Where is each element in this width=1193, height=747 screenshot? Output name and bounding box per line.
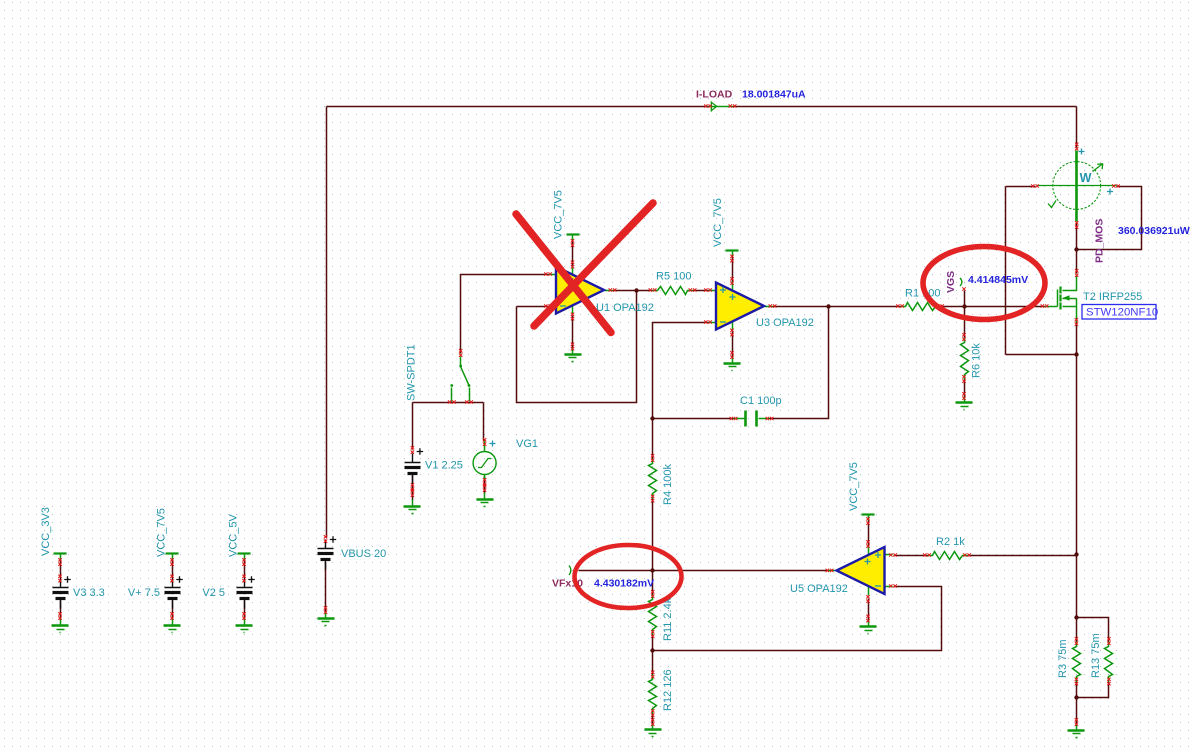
wire U1 feedback box bbox=[517, 291, 637, 403]
ground V2 bbox=[244, 620, 246, 626]
svg-text:VCC_7V5: VCC_7V5 bbox=[848, 462, 860, 511]
wire sense-left horizontal bbox=[1006, 186, 1036, 188]
VCC_7V5 jumper U3 bbox=[726, 249, 739, 251]
wire R13 top branch bbox=[1077, 618, 1109, 642]
pin connection marks bbox=[58, 104, 1120, 726]
ground V1 bbox=[412, 500, 414, 507]
wire sense-right bbox=[1077, 187, 1142, 250]
wire MOSFET source down bbox=[1076, 323, 1078, 355]
wire R4 top bbox=[652, 419, 654, 459]
wire U5 bottom to ground bbox=[868, 599, 870, 621]
wire U5 feedback bbox=[653, 587, 942, 651]
wire top rail right segment bbox=[733, 106, 1077, 108]
wire U5 plus input to R2 bbox=[894, 555, 928, 557]
wire main right rail bbox=[1076, 355, 1078, 642]
node R2 rail junction bbox=[1074, 552, 1078, 556]
VCC_5V jumper bbox=[238, 552, 251, 554]
wire V2 battery to ground bbox=[244, 601, 246, 620]
wire U3 supply stub bbox=[732, 257, 734, 283]
wire C1 right bbox=[770, 307, 829, 419]
wire VBUS bottom to ground bbox=[325, 563, 327, 613]
annotation box STW120NF10 bbox=[1082, 305, 1156, 320]
wire R12 to ground bbox=[652, 714, 654, 725]
wire feedback node to R12 bbox=[652, 651, 654, 675]
wire R11 to feedback node bbox=[652, 635, 654, 651]
wire R1 to MOSFET gate bbox=[941, 306, 1045, 308]
svg-text:VGS: VGS bbox=[945, 271, 957, 293]
wire V2 jumper to battery bbox=[244, 560, 246, 579]
svg-text:VCC_7V5: VCC_7V5 bbox=[712, 198, 724, 247]
svg-text:VCC_7V5: VCC_7V5 bbox=[553, 190, 565, 239]
wire VGS probe stub bbox=[964, 291, 966, 307]
battery V1 2.25 bbox=[412, 454, 414, 463]
svg-text:SW-SPDT1: SW-SPDT1 bbox=[406, 344, 418, 401]
wire U5 supply stub bbox=[868, 521, 870, 547]
wire R6 to ground bbox=[964, 380, 966, 398]
svg-text:T2 IRFP255: T2 IRFP255 bbox=[1083, 291, 1142, 303]
svg-text:VBUS 20: VBUS 20 bbox=[341, 548, 386, 560]
wire U3 minus branch bbox=[653, 323, 709, 419]
ground R12 bbox=[652, 724, 654, 730]
wire top rail left segment bbox=[327, 106, 709, 108]
node source junction bbox=[1074, 352, 1078, 356]
svg-text:R2 1k: R2 1k bbox=[936, 536, 965, 548]
wire switch common bottom bbox=[413, 402, 484, 404]
svg-text:R3 75m: R3 75m bbox=[1057, 639, 1069, 678]
svg-text:VCC_7V5: VCC_7V5 bbox=[156, 508, 168, 557]
wire right rail into wattmeter bbox=[1076, 107, 1078, 148]
resistor R6 10k bbox=[961, 338, 969, 380]
resistor R12 126 bbox=[649, 675, 657, 714]
ground U3 bbox=[732, 357, 734, 364]
wire sense-left vertical bbox=[1005, 187, 1007, 355]
resistor R3 75m bbox=[1073, 642, 1081, 682]
wire U1 supply stub bbox=[572, 241, 574, 266]
wire VG1 top bbox=[483, 403, 485, 441]
wire R3 bottom to ground bbox=[1076, 682, 1078, 725]
wire wattmeter bottom to drain node bbox=[1076, 224, 1078, 274]
resistor R1 100 bbox=[901, 303, 941, 311]
wire U1 output to R5 bbox=[613, 290, 653, 292]
node C1/R4 junction bbox=[650, 416, 654, 420]
svg-text:W: W bbox=[1080, 171, 1092, 185]
node VFx10 junction bbox=[650, 568, 654, 572]
wire U3 bottom to ground bbox=[732, 332, 734, 358]
current probe I-LOAD bbox=[709, 106, 733, 108]
op-amp U5 OPA192 bbox=[885, 554, 893, 556]
resistor R4 100k bbox=[649, 459, 657, 499]
battery V2 5 bbox=[244, 579, 246, 588]
wire VFx10 node to R11 bbox=[652, 571, 654, 595]
node R11/R12 junction bbox=[650, 648, 654, 652]
wire left rail VBUS to top bbox=[326, 107, 328, 538]
svg-text:V+ 7.5: V+ 7.5 bbox=[128, 587, 160, 599]
voltage pin VFx10 bbox=[569, 566, 571, 576]
svg-text:R4 100k: R4 100k bbox=[662, 464, 674, 505]
wire R5 to U3 plus bbox=[693, 290, 709, 292]
wire VGS node to R6 bbox=[964, 307, 966, 338]
svg-text:VCC_3V3: VCC_3V3 bbox=[40, 507, 52, 556]
svg-text:V2 5: V2 5 bbox=[202, 587, 225, 599]
ground VG1 bbox=[484, 493, 486, 500]
ground VBUS bbox=[325, 612, 327, 619]
voltage pin VGS bbox=[960, 278, 962, 286]
source VG1 bbox=[473, 452, 496, 475]
svg-text:VCC_5V: VCC_5V bbox=[228, 514, 240, 557]
node U1 output junction bbox=[634, 288, 638, 292]
svg-text:V3 3.3: V3 3.3 bbox=[73, 587, 105, 599]
VCC_7V5 jumper U5 bbox=[862, 513, 875, 515]
svg-text:R6 10k: R6 10k bbox=[971, 343, 983, 378]
svg-text:R12 126: R12 126 bbox=[662, 669, 674, 711]
wire U1 plus input bbox=[461, 275, 549, 354]
switch SW-SPDT1 bbox=[460, 357, 462, 367]
wire source node horizontal bbox=[1006, 354, 1077, 356]
wire V3 battery to ground bbox=[60, 601, 62, 620]
wire U1 minus input bbox=[517, 306, 549, 308]
wire V3 jumper to battery bbox=[60, 560, 62, 579]
VCC_7V5 jumper left bbox=[166, 552, 179, 554]
svg-text:V1 2.25: V1 2.25 bbox=[425, 460, 463, 472]
ground R6 bbox=[964, 397, 966, 403]
node R3 bottom junction bbox=[1074, 695, 1078, 699]
node VGS junction bbox=[962, 304, 966, 308]
svg-text:18.001847uA: 18.001847uA bbox=[742, 89, 806, 101]
node R3 top junction bbox=[1074, 615, 1078, 619]
resistor R5 100 bbox=[653, 287, 693, 295]
svg-text:I-LOAD: I-LOAD bbox=[696, 89, 733, 101]
svg-text:U3 OPA192: U3 OPA192 bbox=[756, 317, 814, 329]
red cross over U1 bbox=[516, 214, 611, 333]
svg-text:R13 75m: R13 75m bbox=[1090, 633, 1102, 678]
wire C1 left bbox=[653, 418, 734, 420]
wire V1 top bbox=[412, 403, 414, 450]
svg-text:R5 100: R5 100 bbox=[656, 271, 691, 283]
battery V+ 7.5 bbox=[172, 579, 174, 588]
node drain junction bbox=[1074, 247, 1078, 251]
battery V3 3.3 bbox=[60, 579, 62, 588]
svg-text:STW120NF10: STW120NF10 bbox=[1086, 307, 1158, 319]
wire VFx10 output rail bbox=[579, 570, 830, 572]
svg-text:PD_MOS: PD_MOS bbox=[1094, 219, 1106, 263]
wire V1 bottom to ground bbox=[412, 475, 414, 501]
resistor R11 2.4k bbox=[649, 595, 657, 635]
svg-text:C1 100p: C1 100p bbox=[740, 395, 782, 407]
wire R13 bottom branch bbox=[1077, 682, 1109, 698]
op-amp U3 OPA192 bbox=[709, 290, 717, 292]
wattmeter W bbox=[1053, 162, 1101, 210]
VCC_7V5 jumper U1 bbox=[567, 233, 580, 235]
svg-text:R11 2.4k: R11 2.4k bbox=[662, 597, 674, 641]
wire VG1 bottom to ground bbox=[484, 476, 486, 494]
wire U3 output to R1 bbox=[773, 306, 901, 308]
red ellipse around VFx10 bbox=[575, 545, 682, 608]
svg-text:360.036921uW: 360.036921uW bbox=[1118, 225, 1190, 237]
ground U5 bbox=[868, 621, 870, 627]
svg-text:4.414845mV: 4.414845mV bbox=[968, 274, 1028, 286]
ground V+ bbox=[172, 620, 174, 626]
svg-text:VG1: VG1 bbox=[516, 438, 538, 450]
wire U1 bottom to ground bbox=[572, 316, 574, 349]
VCC_3V3 jumper bbox=[54, 552, 67, 554]
wire R2 to rail bbox=[968, 555, 1077, 557]
op-amp U1 OPA192 bbox=[549, 274, 557, 276]
battery VBUS 20 bbox=[325, 540, 327, 549]
wire V+ battery to ground bbox=[172, 601, 174, 620]
ground V3 bbox=[60, 620, 62, 626]
svg-text:4.430182mV: 4.430182mV bbox=[594, 578, 654, 590]
node U3 output junction bbox=[826, 304, 830, 308]
resistor R2 1k bbox=[928, 552, 968, 560]
transistor T2 IRFP255 bbox=[1063, 276, 1077, 291]
red ellipse around VGS bbox=[923, 247, 1045, 320]
svg-text:U1 OPA192: U1 OPA192 bbox=[596, 302, 654, 314]
wire V+ jumper to battery bbox=[172, 560, 174, 579]
resistor R13 75m bbox=[1105, 642, 1113, 682]
wire R4 bottom to VFx10 node bbox=[652, 499, 654, 571]
ground bottom right bbox=[1076, 724, 1078, 731]
svg-text:U5 OPA192: U5 OPA192 bbox=[790, 583, 848, 595]
capacitor C1 100p bbox=[734, 418, 745, 420]
ground U1 bbox=[572, 348, 574, 355]
